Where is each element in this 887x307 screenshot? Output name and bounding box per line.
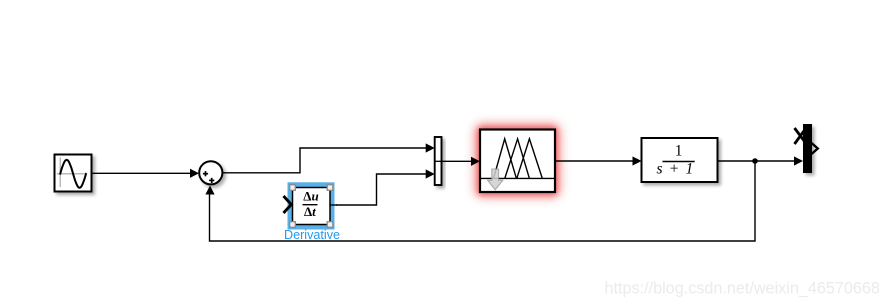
svg-text:Δu: Δu	[303, 189, 318, 204]
svg-text:https://blog.csdn.net/weixin_4: https://blog.csdn.net/weixin_46570668	[605, 280, 880, 298]
svg-text:Δt: Δt	[304, 204, 316, 219]
svg-text:1: 1	[675, 142, 683, 159]
svg-text:s + 1: s + 1	[657, 161, 695, 178]
svg-text:Derivative: Derivative	[284, 228, 340, 242]
